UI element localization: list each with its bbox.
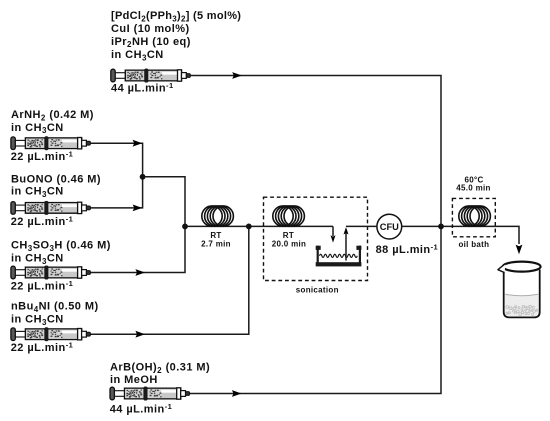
svg-text:20.0 min: 20.0 min <box>272 239 306 248</box>
wire bottom syringe to junction D <box>188 226 441 393</box>
svg-text:in CH3CN: in CH3CN <box>11 253 64 266</box>
arrow down into bath <box>331 235 336 242</box>
arrow syringe4 line <box>135 331 145 338</box>
oil bath dashed box <box>452 198 495 236</box>
wire CFU to junction D <box>402 225 441 227</box>
junction node C <box>246 224 252 230</box>
junction node D <box>438 224 444 230</box>
svg-text:nBu4NI (0.50 M): nBu4NI (0.50 M) <box>11 301 99 314</box>
svg-text:iPr2NH (10 eq): iPr2NH (10 eq) <box>111 36 191 49</box>
svg-text:CFU: CFU <box>380 222 399 232</box>
svg-text:44 µL.min-1: 44 µL.min-1 <box>110 402 173 415</box>
coil reactor 1 <box>202 206 234 226</box>
beaker <box>498 262 541 318</box>
wire syringe2 to junction A <box>89 177 143 208</box>
svg-text:in MeOH: in MeOH <box>110 374 158 386</box>
wire syringe1 to junction A <box>89 143 143 177</box>
sonication dashed box <box>264 197 368 280</box>
wire junction A to main line <box>143 177 185 227</box>
label top reagents <box>11 10 438 415</box>
syringe pump 3 CH3SO3H <box>11 266 91 280</box>
arrow top line <box>232 72 242 79</box>
svg-text:22 µL.min-1: 22 µL.min-1 <box>11 341 74 354</box>
svg-text:in CH3CN: in CH3CN <box>11 186 64 199</box>
arrow syringe3 line <box>135 269 145 276</box>
wire junction D through oil bath to beaker <box>441 226 519 244</box>
arrow syringe1 line <box>133 140 143 147</box>
arrow up out of bath <box>344 227 349 234</box>
svg-text:22 µL.min-1: 22 µL.min-1 <box>11 279 74 292</box>
svg-text:in CH3CN: in CH3CN <box>11 314 64 327</box>
wire down into sonication bath <box>332 226 334 236</box>
svg-text:22 µL.min-1: 22 µL.min-1 <box>11 149 74 162</box>
wire up from sonication bath <box>345 232 347 261</box>
svg-text:CuI (10 mol%): CuI (10 mol%) <box>111 23 190 35</box>
svg-text:in CH3CN: in CH3CN <box>111 49 164 62</box>
sonication liquid wave <box>320 254 358 257</box>
svg-text:in CH3CN: in CH3CN <box>11 122 64 135</box>
svg-text:sonication: sonication <box>296 286 339 295</box>
junction node B <box>182 224 188 230</box>
coil reactor 2 in sonication box <box>273 206 305 226</box>
arrow down into beaker <box>516 245 523 255</box>
svg-text:ArNH2 (0.42 M): ArNH2 (0.42 M) <box>11 109 94 122</box>
syringe pump bottom ArB(OH)2 <box>110 387 190 401</box>
wire main line through coil1 <box>185 225 333 227</box>
arrow syringe2 line <box>133 205 143 212</box>
syringe pump 1 ArNH2 <box>11 136 91 150</box>
syringe pump 2 BuONO <box>11 201 91 215</box>
svg-text:22 µL.min-1: 22 µL.min-1 <box>11 215 74 228</box>
junction node A <box>140 174 146 180</box>
svg-text:2.7 min: 2.7 min <box>201 239 231 248</box>
svg-text:oil bath: oil bath <box>458 240 489 249</box>
svg-text:CH3SO3H (0.46 M): CH3SO3H (0.46 M) <box>11 240 111 253</box>
arrow bottom line <box>232 390 242 397</box>
coil reactor 3 in oil bath <box>459 206 491 226</box>
sonication bath vessel <box>316 246 362 267</box>
syringe pump top <box>111 69 191 83</box>
wire syringe3 to junction B <box>89 226 185 272</box>
wire syringe4 to junction C <box>89 226 249 334</box>
svg-text:[PdCl2(PPh3)2] (5 mol%): [PdCl2(PPh3)2] (5 mol%) <box>111 10 241 23</box>
svg-text:88 µL.min-1: 88 µL.min-1 <box>376 243 439 256</box>
syringe pump 4 nBu4NI <box>11 327 91 341</box>
svg-text:45.0 min: 45.0 min <box>456 183 490 192</box>
wire up-arrow corner to CFU <box>346 225 376 227</box>
svg-text:44 µL.min-1: 44 µL.min-1 <box>111 81 174 94</box>
svg-text:BuONO (0.46 M): BuONO (0.46 M) <box>11 174 101 186</box>
CFU pump circle <box>377 214 402 239</box>
wire top syringe to right vertical <box>189 76 441 227</box>
